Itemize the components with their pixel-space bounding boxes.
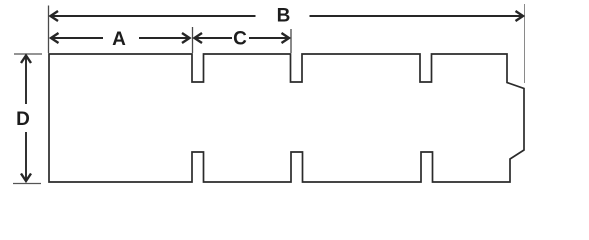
extension line right (x=524.5) [524, 4, 526, 83]
arrowhead C left [195, 33, 203, 43]
dimension line A [51, 37, 190, 39]
arrowhead D bottom [21, 174, 31, 182]
tick bottom-left for D [13, 183, 41, 185]
dimension line D [25, 56, 27, 180]
profile outline of slotted rail [49, 54, 524, 182]
arrowhead C right [282, 33, 290, 43]
svg-text:A: A [112, 29, 126, 50]
svg-text:D: D [16, 109, 30, 130]
arrowhead B right [516, 11, 524, 21]
arrowhead A right [182, 33, 190, 43]
svg-text:C: C [233, 28, 247, 49]
extension line at notch 2 (x=291) [290, 29, 292, 53]
svg-text:B: B [277, 5, 291, 26]
extension line at notch 1 (x=192.5) [192, 27, 194, 53]
arrowhead B left [51, 11, 59, 21]
dimension line C [195, 37, 290, 39]
arrowhead A left [51, 33, 59, 43]
tick top-left for D [14, 53, 42, 55]
extension line left (x=48.5) [48, 6, 50, 54]
arrowhead D top [21, 56, 31, 64]
dimension line B [51, 15, 524, 17]
